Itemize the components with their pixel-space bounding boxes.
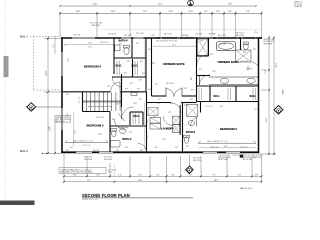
svg-text:AT 8'0" AFF: AT 8'0" AFF — [243, 158, 253, 161]
window symbols on bottom wall — [76, 152, 240, 153]
scattered small dim texts inside plan — [66, 40, 257, 152]
svg-text:2'8" 2'10": 2'8" 2'10" — [124, 35, 132, 37]
svg-text:AT 16" O.C.: AT 16" O.C. — [56, 120, 65, 123]
owners tub — [217, 42, 236, 51]
svg-text:7'0": 7'0" — [189, 174, 193, 176]
owners suite west wall — [151, 38, 153, 96]
svg-text:1'8": 1'8" — [127, 61, 130, 63]
svg-text:14'2": 14'2" — [98, 134, 103, 136]
linen closet hatch laundry — [148, 108, 158, 116]
owners toilet — [244, 44, 249, 50]
lower hall east wall — [146, 92, 148, 152]
svg-text:10'2": 10'2" — [212, 71, 217, 73]
keyed note circle at top — [188, 0, 194, 6]
svg-text:16'4": 16'4" — [138, 180, 143, 182]
posts on top wall east part — [157, 37, 262, 39]
laundry door arc — [171, 103, 181, 113]
svg-text:36'8": 36'8" — [283, 89, 285, 94]
owners bath entry door arc — [200, 75, 210, 85]
bedroom3 east wall — [109, 112, 111, 153]
bottom dashed witness — [114, 163, 116, 176]
svg-text:1'4": 1'4" — [118, 174, 122, 176]
svg-text:31'0": 31'0" — [46, 70, 48, 75]
texts above top wall — [74, 23, 259, 38]
bottom note box — [59, 168, 106, 174]
window symbols on top wall — [72, 37, 144, 38]
svg-text:W/2-2X10: W/2-2X10 — [104, 159, 112, 161]
svg-text:16'3": 16'3" — [276, 62, 278, 67]
svg-text:WALL LINE AT 5'-0" CLG: WALL LINE AT 5'-0" CLG — [207, 140, 229, 143]
stairs south wall — [83, 111, 111, 113]
svg-text:4'0": 4'0" — [96, 174, 100, 176]
svg-text:4'0": 4'0" — [191, 77, 193, 80]
svg-text:4'2" 5'8": 4'2" 5'8" — [74, 35, 81, 37]
top wall west thick — [61, 37, 157, 39]
svg-text:4'2": 4'2" — [158, 99, 161, 101]
svg-text:3'0": 3'0" — [190, 99, 193, 101]
top wall east thinner — [157, 37, 262, 39]
svg-text:3'0": 3'0" — [139, 99, 142, 101]
svg-text:BAL 1: BAL 1 — [20, 35, 28, 39]
svg-text:PLAN 2B: PLAN 2B — [294, 5, 303, 8]
svg-text:BATT INSUL (TYP 2ND FLR EXT WA: BATT INSUL (TYP 2ND FLR EXT WALL) — [61, 171, 94, 174]
hall jog wall — [121, 74, 123, 107]
left note box — [55, 116, 71, 123]
right margin notes block — [264, 39, 276, 45]
owners suite interior dim — [153, 44, 196, 46]
svg-text:W.I.C.: W.I.C. — [134, 116, 141, 118]
laundry east wall — [179, 105, 181, 135]
bottom-left dark status box — [0, 201, 35, 206]
svg-text:2'4": 2'4" — [153, 116, 156, 118]
window symbols on left wall — [61, 52, 62, 130]
owners corner shower — [236, 50, 252, 62]
bottom-left corner witness — [63, 154, 65, 183]
laundry inner door arc — [163, 117, 172, 126]
svg-text:17'4": 17'4" — [87, 180, 92, 182]
svg-text:W/2-2X10: W/2-2X10 — [236, 35, 244, 37]
svg-text:24'4": 24'4" — [111, 11, 116, 13]
svg-text:SCALE: 1/4" = 1'-0": SCALE: 1/4" = 1'-0" — [82, 198, 99, 201]
svg-text:MA-291.10.17: MA-291.10.17 — [240, 187, 253, 190]
svg-text:2'8: 2'8 — [119, 44, 121, 46]
svg-text:2'10": 2'10" — [133, 103, 138, 105]
svg-text:W/2-2X10: W/2-2X10 — [193, 160, 201, 162]
svg-text:24'8": 24'8" — [76, 11, 81, 13]
svg-text:5'4": 5'4" — [265, 69, 267, 73]
svg-text:2'0": 2'0" — [140, 61, 143, 63]
BAL 1 dashed outline — [30, 37, 62, 91]
svg-text:14'8": 14'8" — [228, 4, 233, 6]
svg-text:2'0": 2'0" — [157, 103, 160, 105]
bedroom3 door arc — [114, 119, 125, 130]
svg-text:4'6": 4'6" — [155, 147, 158, 149]
svg-text:HDCP: HDCP — [247, 69, 253, 71]
sloped ceiling line bedroom2 — [198, 106, 256, 148]
svg-text:5'0": 5'0" — [148, 89, 151, 91]
right wall — [258, 38, 260, 154]
svg-text:2'8" X 5'0": 2'8" X 5'0" — [136, 33, 145, 35]
closet divider — [132, 59, 134, 77]
svg-text:2'8" X 5'0": 2'8" X 5'0" — [218, 35, 227, 37]
stairs treads — [83, 92, 122, 111]
svg-text:2'6": 2'6" — [139, 80, 142, 82]
svg-text:6'0": 6'0" — [138, 174, 142, 176]
bottom wall — [61, 151, 259, 153]
svg-text:2'0" X 3'6": 2'0" X 3'6" — [233, 155, 242, 157]
svg-text:5'2": 5'2" — [147, 135, 149, 138]
svg-text:5'0: 5'0 — [136, 43, 138, 45]
bedroom4 south wall — [62, 91, 111, 93]
left keyed diamond marker — [27, 103, 62, 112]
bath3 toilet — [184, 137, 188, 143]
svg-text:2'6": 2'6" — [120, 80, 123, 82]
hall closet hatches top — [117, 61, 138, 75]
bedroom2 closet stub — [200, 102, 202, 113]
svg-text:W.I.C.: W.I.C. — [116, 66, 123, 68]
svg-text:6'10 CLG: 6'10 CLG — [96, 117, 104, 119]
bath3 sink — [188, 121, 194, 126]
svg-text:W/2-2X10: W/2-2X10 — [84, 159, 92, 161]
lower wic hatch — [133, 113, 139, 124]
svg-text:5'8": 5'8" — [246, 11, 250, 13]
thin window lines on east top wall — [162, 37, 255, 39]
svg-text:2'8": 2'8" — [140, 150, 143, 152]
bath4 toilet — [124, 47, 129, 54]
svg-text:W/2-2X10: W/2-2X10 — [92, 25, 100, 27]
bath2 tub — [111, 141, 121, 148]
svg-text:3'6": 3'6" — [124, 73, 127, 75]
stairs hall door arc — [122, 107, 134, 119]
bath2 toilet — [112, 130, 116, 136]
svg-text:2'0": 2'0" — [66, 150, 69, 152]
svg-text:2'8": 2'8" — [175, 147, 178, 149]
svg-text:15'8": 15'8" — [88, 43, 93, 45]
svg-text:2'0": 2'0" — [220, 106, 223, 108]
left dimension column — [44, 36, 62, 154]
svg-text:WALL LINE AT 5'-0" CLG: WALL LINE AT 5'-0" CLG — [73, 139, 94, 142]
svg-text:BEDROOM 4: BEDROOM 4 — [84, 65, 101, 69]
svg-text:3'4": 3'4" — [199, 69, 202, 71]
roof overhang dashed line above top wall — [101, 29, 262, 31]
svg-text:3'4": 3'4" — [53, 44, 55, 48]
svg-text:5'4": 5'4" — [170, 103, 173, 105]
owners suite east wall — [196, 38, 198, 102]
svg-text:3'8": 3'8" — [228, 11, 232, 13]
bath2 sink — [120, 129, 126, 134]
laundry north wall — [147, 102, 172, 104]
svg-text:BATH 4: BATH 4 — [119, 40, 128, 43]
bedroom2 door arc — [191, 117, 197, 126]
svg-text:12'0 CLG: 12'0 CLG — [205, 106, 213, 108]
svg-text:2'8"X5'8": 2'8"X5'8" — [181, 35, 189, 37]
svg-text:2'8": 2'8" — [107, 86, 110, 88]
svg-text:12'0 CLG: 12'0 CLG — [166, 83, 174, 85]
svg-text:5'0 TUB: 5'0 TUB — [219, 44, 226, 46]
bal2 baseline dots — [42, 152, 62, 154]
top dim tick marks — [59, 13, 263, 15]
svg-text:2'8": 2'8" — [253, 49, 256, 51]
wic hanging rods right block — [199, 88, 256, 100]
svg-text:4'0": 4'0" — [73, 174, 77, 176]
bath4 east wall — [131, 38, 133, 58]
right dimension columns — [260, 38, 277, 155]
svg-text:1'8": 1'8" — [168, 112, 171, 114]
svg-text:12'8 X 5'0: 12'8 X 5'0 — [108, 34, 116, 36]
wic dividers right block — [209, 86, 211, 102]
svg-text:2'0" 3'6": 2'0" 3'6" — [196, 34, 203, 36]
vanity counter — [209, 76, 259, 78]
svg-text:OWNERS SUITE: OWNERS SUITE — [163, 62, 185, 66]
svg-text:20'4": 20'4" — [266, 117, 268, 122]
bedroom3 sloped ceiling line — [65, 139, 108, 147]
svg-text:LAUNDRY: LAUNDRY — [161, 126, 174, 130]
bedroom4 door arc — [111, 82, 120, 91]
svg-text:4'0": 4'0" — [156, 174, 160, 176]
svg-text:7'0": 7'0" — [238, 174, 242, 176]
svg-text:13'4": 13'4" — [68, 58, 70, 63]
closet bottom wall — [112, 76, 146, 78]
svg-text:4'10": 4'10" — [169, 11, 174, 13]
shower walls — [197, 55, 209, 57]
svg-text:AT 8'0" AFF: AT 8'0" AFF — [219, 158, 229, 161]
notes under bottom wall — [84, 155, 263, 162]
right keyed diamond marker — [274, 106, 283, 115]
svg-text:W/2X10: W/2X10 — [255, 157, 261, 159]
svg-text:6'0": 6'0" — [112, 119, 115, 121]
left scrollbar thumb — [4, 56, 9, 77]
svg-text:3'4": 3'4" — [171, 174, 175, 176]
stairs arrow — [88, 106, 112, 108]
svg-text:12'8 X 5'0: 12'8 X 5'0 — [82, 145, 90, 147]
svg-text:W.I.C.: W.I.C. — [250, 96, 257, 98]
svg-text:1'10": 1'10" — [254, 32, 259, 34]
svg-text:2'8": 2'8" — [152, 63, 155, 65]
bottom keyed diamond marker — [186, 155, 194, 174]
owners suite south wall — [152, 95, 167, 97]
svg-text:2'8": 2'8" — [184, 88, 187, 90]
top-right corner text block — [294, 1, 303, 8]
svg-text:5'0 CLG: 5'0 CLG — [79, 96, 81, 103]
svg-text:5'4": 5'4" — [155, 84, 158, 86]
svg-text:1'6": 1'6" — [116, 150, 119, 152]
svg-text:6'8": 6'8" — [210, 54, 213, 56]
owners bath vanity back wall — [197, 75, 211, 77]
svg-text:3'4": 3'4" — [129, 132, 132, 134]
svg-text:7'10": 7'10" — [143, 11, 148, 13]
top overall dimension line — [60, 5, 256, 7]
hall closet shelves — [150, 118, 161, 124]
owners bath south wall — [197, 85, 259, 87]
stairs north wall — [120, 91, 146, 93]
svg-text:W.I.C.: W.I.C. — [132, 66, 139, 68]
interior witness line — [144, 40, 146, 76]
svg-text:BEDROOM 2: BEDROOM 2 — [220, 127, 237, 131]
svg-text:3'0": 3'0" — [200, 40, 203, 42]
svg-text:4'0": 4'0" — [70, 147, 73, 149]
bath4 bottom wall — [114, 57, 146, 59]
svg-text:15'2": 15'2" — [158, 4, 163, 6]
bath2 north wall — [110, 125, 147, 127]
svg-text:2'8" X 5'0": 2'8" X 5'0" — [164, 34, 173, 36]
svg-text:14'6": 14'6" — [50, 126, 52, 131]
svg-text:3'0": 3'0" — [186, 146, 189, 148]
svg-text:1 of 2 pages: 1 of 2 pages — [3, 202, 17, 205]
svg-text:BATH 2: BATH 2 — [123, 138, 132, 141]
svg-text:7'0": 7'0" — [212, 174, 216, 176]
svg-text:W.I.C.: W.I.C. — [214, 96, 221, 98]
svg-text:5'0 TUB: 5'0 TUB — [209, 34, 216, 36]
left wall — [61, 37, 63, 153]
svg-text:12'0 CLG: 12'0 CLG — [240, 61, 248, 63]
svg-text:WALL: WALL — [108, 171, 113, 174]
bedroom2 north wall — [197, 101, 259, 103]
svg-text:3'0": 3'0" — [151, 35, 154, 37]
bedroom4 interior dim line — [64, 43, 115, 49]
svg-text:13'2": 13'2" — [116, 104, 121, 106]
upper hall door arc — [112, 77, 121, 86]
bath2 door arc — [138, 144, 147, 153]
svg-text:11'4": 11'4" — [75, 130, 77, 134]
wic lower closet walls — [130, 111, 143, 113]
svg-text:24'8": 24'8" — [93, 4, 98, 6]
bedroom3 interior vertical dim — [73, 112, 75, 146]
svg-text:OWNERS BATH: OWNERS BATH — [218, 60, 239, 64]
svg-text:4'0": 4'0" — [204, 11, 208, 13]
owners shower door arc — [252, 62, 259, 69]
owners suite double door — [166, 89, 182, 97]
svg-text:4'2": 4'2" — [130, 83, 133, 85]
junction square bottom wall — [240, 155, 243, 158]
svg-text:3'8": 3'8" — [147, 119, 149, 122]
svg-text:3'6": 3'6" — [148, 49, 151, 51]
laundry/bath3 divider — [182, 103, 184, 153]
svg-text:12'8": 12'8" — [88, 46, 93, 48]
svg-text:3'0": 3'0" — [191, 90, 194, 92]
svg-text:BEDROOM 3: BEDROOM 3 — [87, 124, 104, 128]
stairwell west wall — [82, 92, 84, 112]
bedroom4 east wall — [113, 38, 115, 74]
svg-text:AT 8'0 AFF: AT 8'0 AFF — [264, 42, 274, 45]
svg-text:5'0": 5'0" — [163, 139, 166, 141]
bottom dimension row 2 — [64, 181, 262, 183]
bath door arc near shower — [197, 55, 207, 65]
svg-text:4'10": 4'10" — [189, 11, 194, 13]
bath3 shower — [187, 105, 198, 117]
svg-text:BATH 3: BATH 3 — [186, 131, 195, 134]
top segment dimension line — [60, 13, 262, 15]
bath4 sink — [115, 45, 120, 51]
hall east wall / owners divider — [145, 38, 147, 92]
svg-text:2'8" X 5'0" 2'8" X 5'0" 2'0": 2'8" X 5'0" 2'8" X 5'0" 2'0" — [156, 40, 178, 42]
svg-text:12'8 X 5'0: 12'8 X 5'0 — [100, 42, 108, 44]
left page edge dotted line — [4, 0, 6, 205]
svg-text:3'0": 3'0" — [66, 94, 69, 96]
svg-text:14'6": 14'6" — [224, 146, 229, 148]
svg-text:5'8": 5'8" — [125, 89, 128, 91]
svg-text:3'0": 3'0" — [137, 89, 140, 91]
washer dryer stacked — [173, 116, 180, 124]
owners toilet nook wall — [240, 38, 242, 50]
svg-text:12'6": 12'6" — [184, 105, 189, 107]
svg-text:3'8": 3'8" — [216, 11, 220, 13]
svg-text:BAL 2: BAL 2 — [20, 149, 28, 153]
svg-text:2'8": 2'8" — [125, 147, 128, 149]
bottom dimension row 1 — [64, 155, 262, 182]
top witness lines — [60, 12, 262, 38]
svg-text:36'8": 36'8" — [214, 180, 219, 182]
top dimension labels — [76, 11, 250, 13]
svg-text:5'0": 5'0" — [254, 109, 257, 111]
shower — [198, 39, 209, 56]
svg-text:3'4": 3'4" — [255, 174, 259, 176]
svg-text:SECOND FLOOR PLAN: SECOND FLOOR PLAN — [82, 193, 130, 198]
svg-text:12'4": 12'4" — [172, 44, 177, 46]
svg-text:3'0" 6'0": 3'0" 6'0" — [93, 150, 100, 152]
stair hall niche — [131, 93, 137, 96]
